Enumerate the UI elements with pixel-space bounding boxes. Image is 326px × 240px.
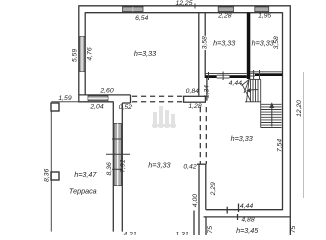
svg-text:h=3,33: h=3,33 xyxy=(231,134,253,143)
svg-text:1,34: 1,34 xyxy=(204,85,211,98)
svg-text:0,52: 0,52 xyxy=(119,104,132,111)
svg-text:1,31: 1,31 xyxy=(175,231,188,235)
svg-text:4,21: 4,21 xyxy=(123,231,136,235)
svg-text:4,44: 4,44 xyxy=(240,203,253,210)
svg-text:h=3,33: h=3,33 xyxy=(134,49,156,58)
svg-text:h=3,45: h=3,45 xyxy=(236,226,259,235)
svg-text:1,95: 1,95 xyxy=(258,13,271,20)
svg-text:4,00: 4,00 xyxy=(192,194,199,207)
svg-text:3,58: 3,58 xyxy=(273,36,280,49)
svg-text:0,84: 0,84 xyxy=(186,88,199,95)
svg-text:8,36: 8,36 xyxy=(44,169,51,182)
svg-text:75: 75 xyxy=(290,226,297,234)
svg-text:4,76: 4,76 xyxy=(87,47,94,60)
svg-text:h=3,33: h=3,33 xyxy=(252,38,274,47)
svg-text:2,28: 2,28 xyxy=(217,13,231,20)
svg-text:5,59: 5,59 xyxy=(72,49,79,62)
svg-text:12,20: 12,20 xyxy=(296,100,303,117)
svg-text:4,44: 4,44 xyxy=(229,80,242,87)
svg-text:3,58: 3,58 xyxy=(201,36,208,49)
svg-text:8,36: 8,36 xyxy=(106,162,113,175)
svg-text:2,60: 2,60 xyxy=(99,87,113,94)
svg-text:1,59: 1,59 xyxy=(58,95,71,102)
svg-text:0,42: 0,42 xyxy=(183,164,196,171)
svg-text:7,91: 7,91 xyxy=(120,159,127,172)
svg-text:6,54: 6,54 xyxy=(135,15,148,22)
svg-text:1,28: 1,28 xyxy=(188,103,201,110)
svg-text:h=3,33: h=3,33 xyxy=(213,38,235,47)
svg-text:2,04: 2,04 xyxy=(89,104,103,111)
svg-text:7,54: 7,54 xyxy=(277,139,284,152)
svg-text:h=3,47: h=3,47 xyxy=(74,170,97,179)
svg-text:75: 75 xyxy=(207,226,214,234)
svg-text:4,88: 4,88 xyxy=(241,216,254,223)
svg-text:12,25: 12,25 xyxy=(175,0,192,7)
svg-text:2,29: 2,29 xyxy=(210,182,217,196)
svg-text:h=3,33: h=3,33 xyxy=(148,161,170,170)
svg-text:Терраса: Терраса xyxy=(69,187,97,196)
